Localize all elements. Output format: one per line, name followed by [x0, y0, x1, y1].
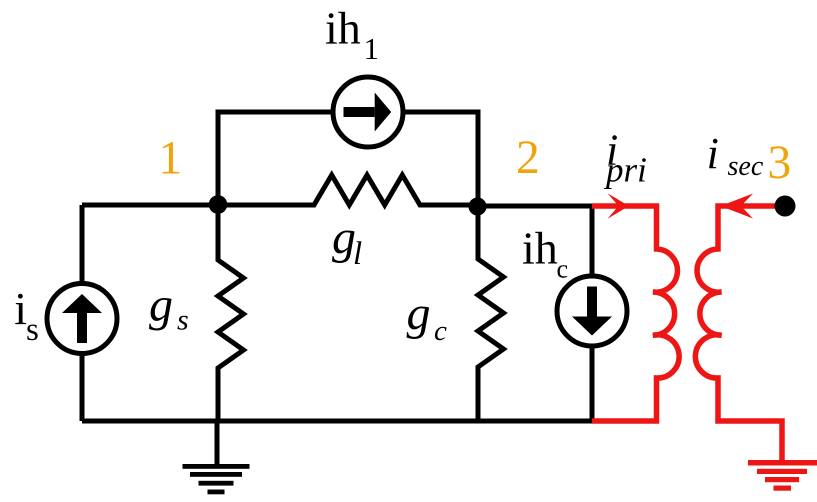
wire: ih_c vertical branch: [590, 206, 595, 421]
wire: left vertical through source i_s: [80, 205, 85, 421]
svg-text:i: i: [707, 129, 719, 178]
svg-text:1: 1: [158, 133, 182, 185]
svg-text:s: s: [26, 312, 39, 348]
svg-text:3: 3: [768, 137, 792, 189]
node 3 dot: [775, 196, 796, 217]
arrow i_pri (red, right): [608, 193, 630, 219]
current source i_s circle: [47, 284, 117, 354]
svg-text:g: g: [149, 278, 173, 331]
current source ih_c circle: [557, 276, 627, 346]
wire: node2 to ih_c branch horizontal: [478, 204, 592, 209]
wire: bottom horizontal: [82, 419, 592, 424]
node 2 junction dot: [469, 198, 487, 216]
svg-text:1: 1: [364, 31, 380, 66]
wire: left loop top horizontal from source to node 1: [82, 203, 218, 208]
wire: red primary loop: [592, 206, 679, 421]
resistor g_c (vertical zigzag below node 2): [478, 206, 504, 421]
arrow i_sec (red, left): [721, 194, 754, 219]
svg-text:2: 2: [516, 132, 540, 184]
ground (red): [748, 460, 817, 466]
resistor g_s (vertical zigzag below node 1): [218, 205, 244, 421]
arrow of ih_1 (right): [344, 107, 375, 117]
current source ih_1 circle: [333, 77, 403, 147]
wire: top branch node1 up, across, down to node2: [218, 112, 478, 206]
svg-text:c: c: [434, 315, 447, 347]
svg-text:sec: sec: [728, 151, 764, 182]
arrow of i_s (up): [77, 313, 87, 343]
svg-text:pri: pri: [603, 151, 647, 190]
svg-text:l: l: [353, 236, 362, 272]
arrow of ih_c (down): [587, 287, 597, 317]
svg-text:ih: ih: [522, 223, 558, 274]
wire: red secondary loop: [695, 206, 785, 460]
node 1 junction dot: [209, 195, 228, 214]
svg-text:c: c: [557, 255, 569, 284]
svg-text:ih: ih: [325, 3, 361, 54]
svg-text:s: s: [177, 304, 189, 337]
svg-text:g: g: [407, 287, 431, 340]
resistor g_l (zigzag in node1-node2 wire): [218, 175, 478, 205]
ground (black): [215, 421, 220, 464]
